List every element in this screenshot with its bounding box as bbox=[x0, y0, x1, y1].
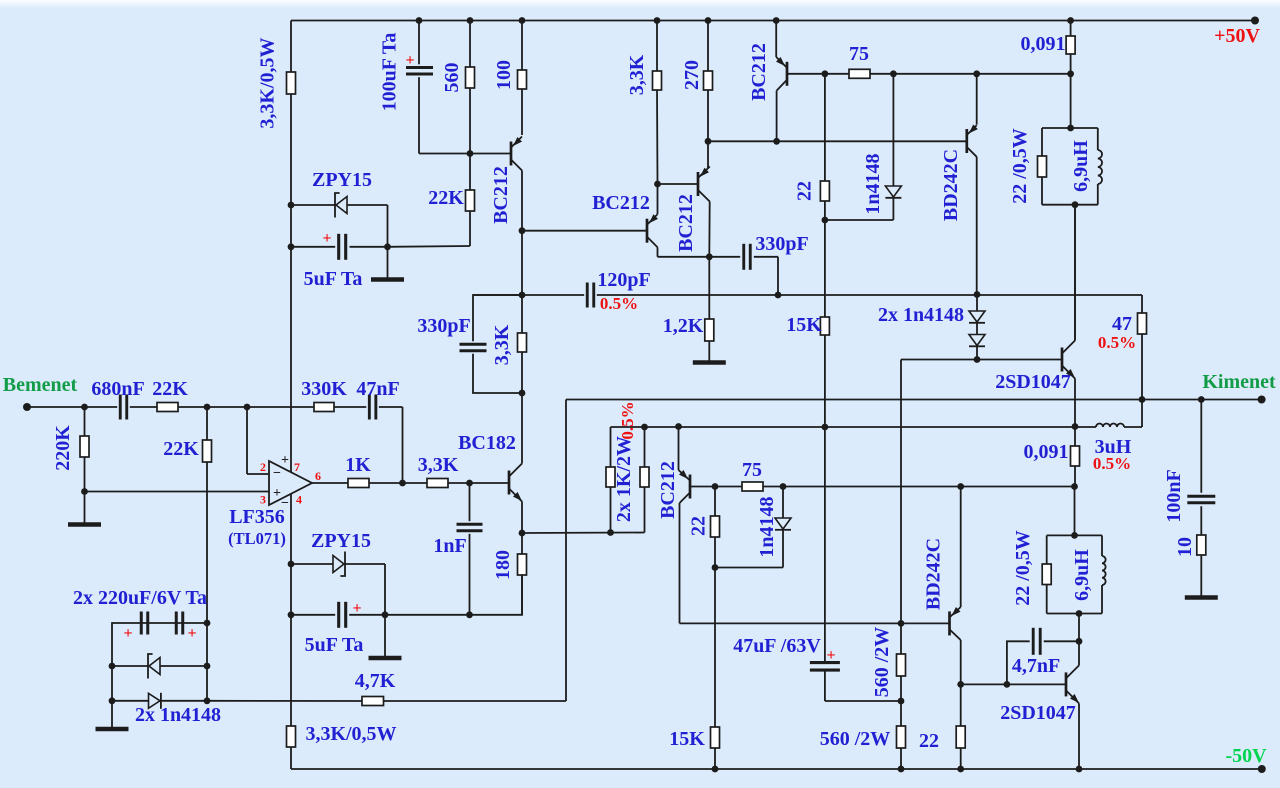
resistor 3,3K base bbox=[427, 479, 448, 488]
ground for zobel bbox=[1185, 595, 1218, 600]
transistor Q9 2SD1047 lower bbox=[1065, 672, 1068, 696]
svg-text:1K: 1K bbox=[345, 454, 371, 476]
svg-text:Kimenet: Kimenet bbox=[1202, 371, 1276, 393]
svg-text:330pF: 330pF bbox=[755, 233, 808, 255]
svg-text:LF356: LF356 bbox=[229, 506, 285, 528]
node 5uF upper left bbox=[288, 243, 295, 250]
svg-text:1nF: 1nF bbox=[433, 535, 466, 557]
resistor 220K bbox=[84, 407, 86, 436]
wire op-amp output bbox=[312, 482, 348, 484]
resistor 10 zobel bbox=[1197, 535, 1206, 555]
transistor Q8 BD242C lower bbox=[960, 487, 962, 608]
wire network to Q7 collector bbox=[1074, 205, 1076, 341]
wire 5uF node to 22K bbox=[388, 245, 471, 248]
svg-text:7: 7 bbox=[294, 460, 300, 474]
wire to op-amp pin3 bbox=[85, 491, 270, 493]
diode 2x 1n4148 stack bbox=[974, 291, 981, 298]
node 330pF/3,3K top bbox=[519, 292, 526, 299]
node rail 270 bbox=[705, 17, 712, 24]
svg-text:220K: 220K bbox=[52, 425, 74, 471]
svg-text:680nF: 680nF bbox=[91, 378, 144, 400]
resistor 22K bias bbox=[469, 154, 471, 191]
diode ZPY15 lower zener bbox=[291, 563, 333, 565]
op-amp U1 LF356 bbox=[269, 461, 312, 505]
node BD242C emitter tap bbox=[973, 70, 980, 77]
node 560/2W mid bbox=[898, 698, 905, 705]
wire feedback down to output node bbox=[402, 407, 404, 483]
capacitor 47uF /63V bbox=[810, 661, 840, 664]
resistor 0,091 lower bbox=[1074, 427, 1076, 447]
svg-text:+: + bbox=[273, 486, 281, 501]
node 15K bottom rail bbox=[712, 766, 719, 773]
wire Q6 base rail y486 bbox=[690, 486, 742, 488]
diode 1n4148 clip upper bbox=[112, 665, 148, 667]
svg-text:1n4148: 1n4148 bbox=[756, 496, 778, 557]
svg-text:4,7nF: 4,7nF bbox=[1012, 655, 1060, 677]
node feedback/1K bbox=[399, 480, 406, 487]
svg-text:100nF: 100nF bbox=[1163, 469, 1185, 522]
svg-text:330pF: 330pF bbox=[417, 315, 470, 337]
svg-text:3,3K: 3,3K bbox=[491, 324, 513, 365]
wire y427 output bus bbox=[611, 426, 1097, 428]
node 0,091 tap bbox=[1067, 70, 1074, 77]
svg-text:180: 180 bbox=[492, 550, 514, 580]
capacitor 4,7nF bbox=[1007, 641, 1030, 684]
svg-text:(TL071): (TL071) bbox=[228, 529, 286, 548]
svg-text:0.5%: 0.5% bbox=[618, 401, 637, 439]
resistor 0,091 upper bbox=[1070, 21, 1072, 37]
node rail 100uF bbox=[416, 17, 423, 24]
wire Q8 collector to Q9 base bbox=[961, 683, 1007, 685]
svg-text:22K: 22K bbox=[152, 378, 188, 400]
svg-text:3,3K: 3,3K bbox=[626, 54, 648, 95]
svg-text:ZPY15: ZPY15 bbox=[311, 530, 371, 552]
svg-text:+: + bbox=[187, 625, 196, 642]
node 270/Q3 bbox=[705, 138, 712, 145]
node -50V terminal bbox=[1258, 765, 1266, 773]
node 100nF tap bbox=[1198, 396, 1205, 403]
transistor Q4 BC212 current source bbox=[775, 21, 777, 58]
svg-text:+: + bbox=[826, 647, 835, 664]
node 1nF bottom bbox=[466, 611, 473, 618]
diode ZPY15 upper zener bbox=[291, 204, 336, 206]
node 15K line / output bus bbox=[822, 424, 829, 431]
svg-text:22 /0,5W: 22 /0,5W bbox=[1009, 128, 1031, 204]
svg-text:−: − bbox=[273, 466, 281, 481]
svg-text:560 /2W: 560 /2W bbox=[820, 728, 891, 750]
capacitor 330pF dominant-pole bbox=[473, 295, 522, 341]
node 22 mid bottom bbox=[712, 564, 719, 571]
node +50V terminal bbox=[1251, 17, 1259, 25]
svg-text:22 /0,5W: 22 /0,5W bbox=[1012, 530, 1034, 606]
svg-text:120pF: 120pF bbox=[597, 269, 650, 291]
svg-text:47nF: 47nF bbox=[356, 378, 399, 400]
node 1n4148 mid tap bbox=[780, 483, 787, 490]
resistor 3,3K parallel bbox=[521, 295, 523, 333]
svg-text:6,9uH: 6,9uH bbox=[1070, 140, 1092, 192]
node clip upper left bbox=[109, 663, 116, 670]
resistor 560 /2W lower bbox=[900, 701, 902, 726]
resistor 1,2K bbox=[708, 257, 710, 319]
svg-text:22K: 22K bbox=[428, 187, 464, 209]
resistor 560 /2W upper bbox=[900, 623, 902, 654]
node 5uF lower right bbox=[382, 611, 389, 618]
resistor 2x 1K/2W left bbox=[610, 427, 612, 467]
node 4,7nF tap bbox=[1004, 681, 1011, 688]
svg-text:5uF Ta: 5uF Ta bbox=[304, 268, 363, 290]
node 220K tap bbox=[81, 404, 88, 411]
transistor Q1 BC212 bbox=[510, 142, 513, 166]
wire to op-amp pin2 bbox=[246, 407, 248, 474]
resistor 3,3K second stage bbox=[656, 21, 658, 72]
node 22 lower bottom rail bbox=[957, 766, 964, 773]
resistor 3,3K/0,5W lower bbox=[290, 615, 292, 726]
node 22K shunt tap bbox=[204, 404, 211, 411]
wire input line bbox=[27, 406, 117, 408]
resistor 560 bbox=[469, 21, 471, 68]
svg-text:1n4148: 1n4148 bbox=[862, 153, 884, 214]
node rail Q4 bbox=[773, 17, 780, 24]
node Q3 collector bbox=[706, 253, 713, 260]
wire Q3 base rail y141 bbox=[708, 140, 967, 142]
node inverting input tap bbox=[244, 404, 251, 411]
network 22/0,5W || 6,9uH lower bbox=[1047, 534, 1102, 536]
node 1K/2W top right bbox=[641, 424, 648, 431]
resistor 1K bbox=[348, 479, 369, 488]
wire VAS feedback drop x566 bbox=[565, 400, 567, 702]
capacitor 330pF lag bbox=[709, 256, 740, 258]
node 22 bottom bbox=[822, 217, 829, 224]
resistor 22K shunt bbox=[206, 407, 208, 440]
transistor Q6 BC212 Vbe multiplier bbox=[678, 427, 680, 471]
resistor 100 bbox=[521, 21, 523, 71]
svg-text:+: + bbox=[405, 52, 414, 69]
node 1nF tap bbox=[466, 480, 473, 487]
node 1n4148 tap bbox=[890, 70, 897, 77]
svg-text:3,3K/0,5W: 3,3K/0,5W bbox=[305, 723, 396, 745]
diode 1n4148 upper bbox=[892, 74, 894, 186]
svg-text:+: + bbox=[322, 230, 331, 247]
ground for 5uF Ta lower bbox=[384, 615, 386, 657]
transistor Q2 BC212 bbox=[646, 219, 649, 243]
node clip lower right bbox=[204, 697, 211, 704]
svg-text:BC212: BC212 bbox=[675, 194, 697, 252]
node 220uF right bbox=[204, 620, 211, 627]
svg-text:BD242C: BD242C bbox=[940, 149, 962, 221]
svg-text:10: 10 bbox=[1174, 537, 1196, 557]
node 5uF upper right bbox=[384, 243, 391, 250]
svg-text:BC182: BC182 bbox=[458, 432, 516, 454]
svg-text:2SD1047: 2SD1047 bbox=[995, 371, 1071, 393]
svg-text:+: + bbox=[352, 600, 361, 617]
svg-text:22K: 22K bbox=[163, 438, 199, 460]
wire 22/1n4148 mid bottom link bbox=[715, 567, 783, 569]
resistor 47 / 0.5% bbox=[1141, 295, 1143, 313]
capacitor 2x 220uF/6V Ta bbox=[112, 623, 207, 666]
wire 560/100uF to 22K node bbox=[419, 153, 511, 155]
node y614 left bbox=[288, 611, 295, 618]
resistor 22 upper bbox=[824, 74, 826, 181]
node rail 560 bbox=[467, 17, 474, 24]
transistor Q5 BD242C bbox=[976, 74, 978, 125]
wire driver base rail y359 bbox=[901, 359, 1062, 361]
svg-text:+: + bbox=[123, 625, 132, 642]
svg-text:4: 4 bbox=[296, 493, 302, 507]
svg-text:47uF /63V: 47uF /63V bbox=[733, 635, 821, 657]
capacitor 5uF Ta upper bbox=[291, 246, 335, 248]
node 330pF/120pF bbox=[775, 292, 782, 299]
svg-text:270: 270 bbox=[681, 60, 703, 90]
node zener upper left bbox=[288, 202, 295, 209]
node Q4 collector on y141 bbox=[773, 138, 780, 145]
wire output rail bbox=[566, 399, 1262, 401]
node 0,091 lower bottom bbox=[1071, 483, 1078, 490]
transistor Q7 2SD1047 upper bbox=[1061, 348, 1064, 372]
node Bemenet terminal bbox=[23, 403, 31, 411]
resistor 75 bias bbox=[849, 69, 870, 78]
wire 1K/2W bottom link bbox=[522, 532, 645, 535]
node 22 tap bbox=[822, 70, 829, 77]
node 560/2W top bbox=[898, 620, 905, 627]
wire 330pF to 120pF line bbox=[777, 257, 779, 295]
svg-text:ZPY15: ZPY15 bbox=[312, 169, 372, 191]
resistor 15K upper bbox=[820, 317, 829, 335]
svg-text:15K: 15K bbox=[786, 314, 822, 336]
wire Q6 collector rail y623 bbox=[680, 622, 950, 624]
node clip lower left bbox=[109, 697, 116, 704]
svg-text:75: 75 bbox=[849, 43, 869, 65]
resistor 2x 1K/2W right bbox=[644, 427, 646, 467]
svg-text:22: 22 bbox=[919, 730, 939, 752]
node Q2 emitter / 3,3K bbox=[654, 181, 661, 188]
node emitter/3uH junction bbox=[1072, 423, 1079, 430]
node Q9 collector/4,7nF bbox=[1076, 638, 1083, 645]
inductor 3uH bbox=[1096, 424, 1124, 427]
svg-text:560: 560 bbox=[441, 63, 463, 93]
wire +50V top rail bbox=[291, 20, 1255, 22]
resistor 22K input bbox=[157, 403, 178, 412]
svg-text:2: 2 bbox=[260, 460, 266, 474]
wire Q2/Q3 collector rail bbox=[658, 256, 710, 258]
resistor 22 lower bbox=[960, 684, 962, 726]
resistor 22 mid bbox=[714, 487, 716, 517]
svg-text:560 /2W: 560 /2W bbox=[871, 627, 893, 698]
ground for 220K bbox=[84, 492, 86, 524]
node Q8 collector bbox=[957, 681, 964, 688]
svg-text:2x 220uF/6V Ta: 2x 220uF/6V Ta bbox=[73, 587, 207, 609]
capacitor 47nF feedback bbox=[368, 395, 371, 420]
svg-text:0.5%: 0.5% bbox=[1093, 454, 1131, 473]
node rail 0,091 bbox=[1067, 17, 1074, 24]
svg-text:100uF Ta: 100uF Ta bbox=[379, 33, 401, 112]
wire network lower to Q9 collector bbox=[1078, 614, 1080, 642]
diode 1n4148 clip lower bbox=[112, 700, 149, 702]
svg-text:15K: 15K bbox=[669, 728, 705, 750]
transistor Q3 BC212 bbox=[697, 172, 700, 196]
svg-text:0,091: 0,091 bbox=[1021, 33, 1066, 55]
svg-text:3,3K: 3,3K bbox=[418, 454, 459, 476]
capacitor 100nF output zobel bbox=[1200, 400, 1202, 493]
resistor 180 bbox=[521, 533, 523, 554]
resistor 4,7K bbox=[207, 700, 362, 702]
wire 180/1nF bottom rail y614 bbox=[349, 575, 522, 615]
svg-text:2SD1047: 2SD1047 bbox=[1000, 702, 1076, 724]
svg-text:1,2K: 1,2K bbox=[663, 315, 704, 337]
capacitor 120pF bbox=[473, 294, 584, 296]
node 47 output bbox=[1139, 396, 1146, 403]
transistor Q10 BC182 bbox=[508, 471, 511, 495]
svg-text:22: 22 bbox=[688, 516, 710, 536]
svg-text:100: 100 bbox=[493, 60, 515, 90]
svg-text:2x 1K/2W: 2x 1K/2W bbox=[613, 436, 635, 522]
svg-text:0.5%: 0.5% bbox=[1098, 333, 1136, 352]
network 22/0,5W || 6,9uH upper bbox=[1042, 127, 1098, 129]
svg-text:5uF Ta: 5uF Ta bbox=[305, 634, 364, 656]
svg-text:0.5%: 0.5% bbox=[600, 294, 638, 313]
wire 22 node down to 15K bbox=[824, 220, 826, 317]
svg-text:BC212: BC212 bbox=[657, 461, 679, 519]
node Kimenet terminal bbox=[1258, 396, 1266, 404]
node rail 3,3K bbox=[654, 17, 661, 24]
svg-text:330K: 330K bbox=[301, 378, 347, 400]
node 1K/2W bottom bbox=[607, 529, 614, 536]
node BC182 emitter bbox=[519, 530, 526, 537]
svg-text:0,091: 0,091 bbox=[1024, 441, 1069, 463]
svg-text:BD242C: BD242C bbox=[923, 538, 945, 610]
wire Q1 collector to Q2 base bbox=[522, 230, 647, 232]
svg-text:BC212: BC212 bbox=[490, 166, 512, 224]
wire -50V bottom rail bbox=[291, 768, 1262, 770]
wire Q2 emitter node to Q3 base bbox=[658, 183, 699, 185]
node 22 mid tap bbox=[712, 483, 719, 490]
svg-text:75: 75 bbox=[742, 459, 762, 481]
svg-text:22: 22 bbox=[794, 181, 816, 201]
resistor 75 Vbe bbox=[742, 482, 763, 491]
svg-text:-50V: -50V bbox=[1225, 745, 1267, 767]
node rail 100 bbox=[519, 17, 526, 24]
capacitor 100uF Ta bbox=[418, 21, 420, 65]
svg-text:BC212: BC212 bbox=[748, 43, 770, 101]
svg-text:+50V: +50V bbox=[1214, 25, 1260, 47]
node 560/2W bottom rail bbox=[898, 766, 905, 773]
wire 15K line down to 47uF bbox=[824, 427, 826, 663]
svg-text:3,3K/0,5W: 3,3K/0,5W bbox=[257, 37, 279, 128]
ground for 1,2K bbox=[693, 360, 726, 365]
wire 22/1n4148 bottom link bbox=[825, 219, 894, 221]
resistor 3,3K/0,5W upper bbox=[290, 21, 292, 73]
svg-text:47: 47 bbox=[1112, 313, 1132, 335]
ground for clip network bbox=[111, 701, 113, 727]
svg-text:−: − bbox=[281, 496, 289, 511]
svg-text:2x 1n4148: 2x 1n4148 bbox=[135, 704, 221, 726]
node Q1 collector bbox=[519, 227, 526, 234]
node Q9 emitter bottom rail bbox=[1076, 766, 1083, 773]
node zener lower left bbox=[288, 561, 295, 568]
capacitor 1nF bbox=[469, 483, 471, 521]
svg-text:3: 3 bbox=[260, 493, 266, 507]
wire Q4 base rail y74 bbox=[787, 73, 1071, 75]
svg-text:Bemenet: Bemenet bbox=[3, 374, 78, 396]
capacitor 680nF bbox=[119, 395, 122, 420]
resistor 270 bbox=[707, 21, 709, 72]
svg-text:4,7K: 4,7K bbox=[355, 670, 396, 692]
resistor 330K feedback bbox=[314, 403, 334, 412]
svg-text:6,9uH: 6,9uH bbox=[1071, 549, 1093, 601]
svg-text:6: 6 bbox=[315, 469, 321, 483]
svg-text:2x 1n4148: 2x 1n4148 bbox=[878, 304, 964, 326]
node base BC212 Q1 bbox=[467, 150, 474, 157]
svg-text:+: + bbox=[281, 453, 289, 468]
diode 1n4148 mid bbox=[782, 487, 784, 519]
node 220K bottom bbox=[81, 488, 88, 495]
node clip upper right bbox=[204, 663, 211, 670]
wire clip left link bbox=[111, 666, 113, 701]
resistor 15K lower bbox=[714, 568, 716, 728]
node 330pF/3,3K bottom bbox=[519, 390, 526, 397]
wire op-amp V- rail bbox=[290, 494, 292, 615]
svg-text:BC212: BC212 bbox=[592, 192, 650, 214]
capacitor 5uF Ta lower bbox=[291, 614, 335, 616]
ground for 5uF Ta upper bbox=[387, 247, 389, 278]
